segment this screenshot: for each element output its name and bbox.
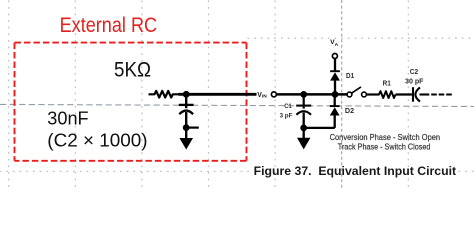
- terminal VIN circle: [271, 92, 276, 97]
- capacitor C1 top plate: [296, 105, 311, 107]
- grid vertical dotted line x=275.1: [274, 1, 276, 190]
- svg-text:IN: IN: [262, 94, 267, 100]
- wire D2 cathode to node: [334, 94, 336, 106]
- svg-text:C2: C2: [410, 67, 418, 76]
- node junction dot diode branch: [332, 91, 339, 98]
- node ground junction dot (internal): [300, 125, 307, 132]
- wire VIN to switch: [277, 93, 348, 96]
- switch lever: [352, 87, 362, 93]
- node ground junction dot (external): [183, 124, 190, 131]
- diode D1 cathode bar: [330, 70, 340, 72]
- diode D2 cathode bar: [330, 105, 340, 107]
- node junction dot at external RC: [183, 91, 190, 98]
- grid vertical dotted line x=8.7: [8, 1, 10, 190]
- svg-text:A: A: [335, 42, 339, 48]
- wire main left (junction to VIN label): [179, 93, 257, 96]
- svg-text:Track Phase - Switch Closed: Track Phase - Switch Closed: [338, 142, 431, 152]
- svg-text:Conversion Phase - Switch Open: Conversion Phase - Switch Open: [330, 132, 441, 142]
- grid horizontal dotted line y=171.4 right segment: [459, 170, 474, 172]
- capacitor 30nF top plate: [179, 104, 194, 106]
- wire C2 right lead: [420, 93, 430, 95]
- terminal VA circle: [332, 54, 337, 59]
- wire R1 to C2: [396, 93, 412, 95]
- label VIN: [257, 92, 267, 100]
- diode D1 triangle: [330, 72, 340, 80]
- label VA: [330, 39, 339, 48]
- grid vertical dotted line x=141.9: [141, 1, 143, 190]
- wire dashed continuation: [431, 93, 452, 95]
- capacitor C1 curved bottom plate: [296, 111, 311, 115]
- svg-text:3 pF: 3 pF: [280, 112, 293, 119]
- wire D1 cathode to VA terminal: [334, 58, 336, 71]
- svg-text:30 pF: 30 pF: [405, 76, 424, 85]
- wire cap to ground junction: [185, 112, 187, 139]
- svg-text:(C2 × 1000): (C2 × 1000): [47, 129, 147, 150]
- svg-text:D1: D1: [346, 71, 355, 80]
- svg-text:C1: C1: [284, 103, 292, 110]
- svg-text:R1: R1: [383, 80, 391, 88]
- capacitor C2 curved plate: [415, 87, 420, 101]
- diode D2 triangle: [330, 107, 340, 115]
- wire node to D1 anode: [334, 80, 336, 94]
- wire C1 to ground junction: [303, 113, 305, 139]
- wire down to 30nF cap: [185, 94, 187, 108]
- grid vertical dotted line x=408.3: [407, 1, 409, 190]
- svg-text:30nF: 30nF: [47, 107, 88, 128]
- ground arrow (internal): [297, 138, 310, 150]
- wire D2 anode to ground link: [334, 115, 336, 128]
- capacitor C2 flat plate: [412, 87, 414, 102]
- resistor 5K (external): [149, 91, 180, 98]
- switch left contact circle: [347, 92, 352, 97]
- svg-text:D2: D2: [345, 106, 354, 115]
- capacitor 30nF curved bottom plate: [179, 111, 193, 115]
- grid horizontal dashed line y=105: [0, 104, 474, 106]
- ground arrow (external): [179, 138, 193, 150]
- wire ground link to D2: [304, 127, 335, 129]
- grid horizontal dotted line y=38 right segment: [248, 37, 474, 39]
- svg-text:External RC: External RC: [60, 14, 158, 37]
- svg-text:5KΩ: 5KΩ: [114, 58, 151, 82]
- wire switch to R1: [366, 93, 379, 95]
- red dashed annotation box (External RC): [15, 43, 247, 161]
- node junction dot C1 branch: [300, 91, 307, 98]
- resistor R1: [379, 91, 396, 98]
- grid vertical dotted line x=208.5: [208, 1, 210, 190]
- switch right contact circle: [362, 92, 367, 97]
- grid vertical dashed line x=341.7: [341, 0, 343, 190]
- grid horizontal dotted line y=171.4 left segment: [0, 170, 251, 172]
- wire stub right of junction: [186, 126, 199, 128]
- wire down to C1: [303, 94, 305, 108]
- svg-text:Figure 37. Equivalent Input C: Figure 37. Equivalent Input Circuit: [254, 164, 457, 178]
- grid vertical dotted line x=75.3: [74, 1, 76, 190]
